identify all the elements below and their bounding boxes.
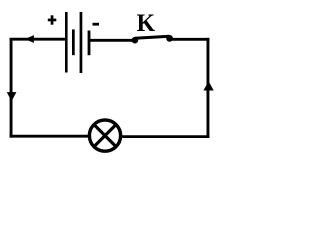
wire switch to top-right corner [170, 38, 210, 41]
wire bottom left segment [10, 135, 89, 138]
wire left vertical [10, 38, 13, 138]
label + [48, 15, 57, 24]
arrow current up on right wire [203, 81, 213, 90]
battery cell 2 short plate (-) [88, 31, 91, 56]
label - [93, 23, 100, 26]
arrow current down on left wire [7, 92, 17, 101]
wire bottom right segment [122, 135, 210, 138]
switch K right terminal node [166, 35, 173, 42]
wire top-left segment [10, 38, 66, 41]
lamp L (circle with X) [89, 120, 120, 151]
svg-text:K: K [137, 10, 156, 37]
battery cell 1 short plate [72, 29, 75, 55]
switch K blade [135, 35, 170, 40]
battery cell 1 long plate (+) [65, 12, 68, 73]
switch K left terminal node [132, 37, 139, 44]
arrow current left on top wire [25, 35, 34, 43]
wire right vertical [207, 38, 210, 138]
battery cell 2 long plate [80, 12, 83, 73]
wire battery to switch [89, 39, 135, 42]
